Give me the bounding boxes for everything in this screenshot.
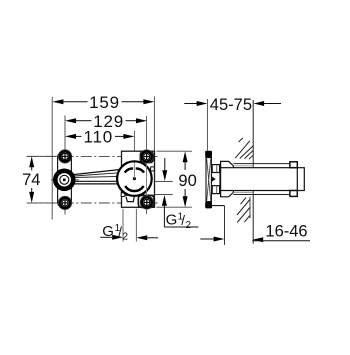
G 1/2 label left with leader — [100, 223, 128, 243]
screw bottom right — [140, 196, 153, 209]
tube left edge dark — [219, 165, 221, 194]
extension line at plate right edge x=154.4 — [153, 97, 155, 152]
wall line — [252, 100, 254, 168]
dimension 16-46 — [200, 222, 310, 242]
svg-text:G: G — [102, 223, 114, 240]
washer bottom — [212, 186, 219, 194]
screw boss bottom right — [138, 195, 154, 207]
dimension 45-75 — [184, 96, 281, 114]
inner arc bottom — [125, 186, 143, 191]
screw boss top right — [140, 152, 153, 163]
dimension 110 — [65, 128, 134, 147]
extension line left of plate (159 left) — [51, 97, 53, 220]
end cap line — [296, 168, 298, 191]
extension/centerline through right screws x=146.5 — [146, 116, 148, 214]
bottom dimension right arrow of outlet — [136, 235, 158, 240]
dimension 74 — [22, 156, 40, 203]
screw top right — [140, 150, 153, 163]
top clamp boss — [221, 161, 234, 167]
washer inner line — [216, 165, 218, 173]
inner arc top — [125, 168, 133, 172]
extension/centerline through circle center x=134.4 — [133, 131, 135, 179]
left plate (wall bracket) — [58, 151, 72, 209]
wall hatch below — [237, 198, 250, 223]
dimension 129 — [65, 112, 147, 131]
side outlet dimension arrows (G 1/2 right) — [155, 158, 172, 227]
svg-text:G: G — [166, 211, 178, 228]
bottom outlet extension lines — [122, 209, 124, 242]
horizontal centerline through ring y=179.8 — [51, 179, 79, 181]
wall hatch above — [235, 138, 253, 159]
bottom-left notch — [121, 193, 125, 197]
outlet neck below circle — [126, 197, 134, 202]
svg-text:110: 110 — [84, 128, 114, 147]
G 1/2 label right — [164, 211, 198, 231]
big circle (mixer body front) — [117, 161, 152, 196]
main tube body — [221, 168, 305, 191]
sleeve edge line below body — [249, 197, 251, 218]
bottom clamp boss — [221, 191, 234, 197]
nub bottom — [290, 191, 297, 197]
45-75 extension line (flange face) — [206, 99, 208, 151]
sleeve lines top — [233, 163, 290, 165]
mounting ring left — [55, 171, 73, 189]
dimension 159 — [52, 93, 154, 112]
right side tab of circle — [151, 167, 155, 171]
svg-text:90: 90 — [178, 172, 196, 190]
extension/centerline through left plate x=65 — [64, 115, 66, 214]
svg-text:2: 2 — [123, 232, 129, 243]
arm (lever) — [74, 170, 119, 184]
right square plate — [122, 151, 155, 207]
svg-text:159: 159 — [89, 93, 120, 112]
center wedge — [212, 176, 216, 182]
flange bottom cap — [205, 202, 212, 209]
dimension 74 extension lines — [27, 155, 58, 157]
svg-text:74: 74 — [22, 171, 40, 189]
dimension 90 — [178, 151, 196, 207]
centerline inside circle — [133, 163, 135, 179]
horizontal centerline bottom screws y=203 — [27, 202, 158, 204]
center dot — [133, 177, 136, 180]
lower body L-outline — [212, 205, 225, 207]
horizontal centerline top screws y=156.4 — [27, 155, 158, 157]
washer top — [212, 165, 219, 173]
nub top — [290, 162, 297, 168]
flange top cap — [205, 151, 212, 158]
sleeve lines bottom — [233, 194, 290, 196]
screw bottom left — [58, 196, 71, 209]
dimension 90 extension lines — [157, 150, 193, 152]
flange body — [206, 158, 211, 202]
screw top left — [58, 150, 71, 163]
svg-text:2: 2 — [186, 220, 192, 231]
svg-text:45-75: 45-75 — [210, 96, 252, 114]
svg-text:16-46: 16-46 — [265, 222, 307, 240]
